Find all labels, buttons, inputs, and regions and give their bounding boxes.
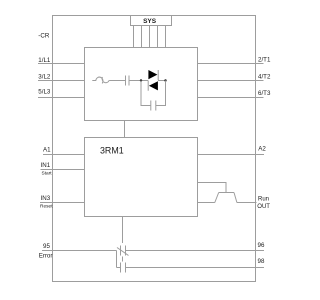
svg-text:95: 95 xyxy=(43,243,50,250)
svg-text:-CR: -CR xyxy=(38,33,50,40)
svg-text:Run: Run xyxy=(258,197,269,203)
svg-text:3RM1: 3RM1 xyxy=(100,145,124,155)
svg-text:1/L1: 1/L1 xyxy=(38,57,51,64)
svg-text:OUT: OUT xyxy=(257,204,270,210)
svg-text:2/T1: 2/T1 xyxy=(258,56,271,63)
svg-text:IN1: IN1 xyxy=(41,162,51,169)
svg-text:Start: Start xyxy=(42,170,53,176)
svg-text:A1: A1 xyxy=(43,147,51,154)
svg-text:6/T3: 6/T3 xyxy=(258,90,271,97)
svg-text:98: 98 xyxy=(258,258,265,265)
svg-text:5/L3: 5/L3 xyxy=(38,89,51,96)
svg-text:Error: Error xyxy=(39,253,53,260)
svg-text:96: 96 xyxy=(258,242,265,249)
svg-text:IN3: IN3 xyxy=(41,195,51,202)
svg-text:A2: A2 xyxy=(258,146,266,153)
svg-text:4/T2: 4/T2 xyxy=(258,73,271,80)
svg-text:3/L2: 3/L2 xyxy=(38,73,51,80)
svg-text:SYS: SYS xyxy=(143,18,157,25)
svg-text:Reset: Reset xyxy=(40,204,53,210)
